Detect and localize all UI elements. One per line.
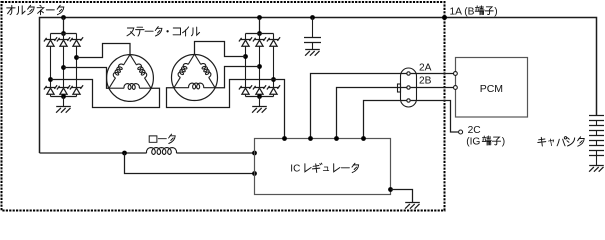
label: PCM xyxy=(480,83,503,95)
junction: rotor supply branch xyxy=(122,151,127,156)
node: terminal 1A (B terminal) xyxy=(442,15,447,20)
wire: left stator apex to bridge1 xyxy=(77,44,131,58)
alternator boundary box (dashed) xyxy=(2,2,445,211)
PCM pin (2A) xyxy=(454,72,458,76)
label: 2A xyxy=(419,62,432,73)
wire: regulator ground xyxy=(391,190,413,203)
junction: phase tap xyxy=(243,54,248,59)
svg-text:1A (B: 1A (B xyxy=(450,7,475,18)
wire: phase column x=50.5 xyxy=(50,46,52,87)
junction: phase tap xyxy=(74,55,79,60)
wire: phase column x=273.5 xyxy=(273,46,275,87)
junction: bridge ground node xyxy=(61,94,66,99)
wire: rotor to IC regulator F terminal xyxy=(176,152,254,154)
junction: bridge1 feed on B+ rail xyxy=(61,15,66,20)
junction: bridge2 feed on B+ rail xyxy=(257,15,262,20)
wire: branch to IC regulator B sense xyxy=(125,153,255,174)
wire: phase column x=259.5 xyxy=(259,46,261,87)
capacitor C1 (noise suppressor) xyxy=(304,18,321,50)
stator coil L1 phase winding (bottom leg) xyxy=(109,84,151,90)
diode D10 (lower, avalanche) xyxy=(239,85,252,96)
wire: left stator lower-left vertex to bridge1 xyxy=(64,68,110,89)
label: (IG端子) xyxy=(466,136,505,147)
wire: right stator lower-left vertex to bridge2 (routed below) xyxy=(167,80,274,108)
ground: capacitor C2 xyxy=(589,166,604,172)
junction: regulator pin 2A xyxy=(308,136,313,141)
junction: noise capacitor tap on B+ rail xyxy=(310,15,315,20)
wire: phase column x=76.5 xyxy=(76,46,78,87)
diode D5 (lower, avalanche) xyxy=(57,85,70,96)
wire: phase sense from bridge2 to regulator xyxy=(274,80,285,139)
IC regulator U1 (ICレギュレータ) xyxy=(255,139,391,195)
wire: 2B to PCM xyxy=(411,87,454,89)
wire: bridge bottom (anode) rail xyxy=(246,96,274,98)
label: 1A (B端子) xyxy=(450,6,498,18)
diode D6 (lower, avalanche) xyxy=(70,85,83,96)
svg-text:2A: 2A xyxy=(419,62,432,73)
node: terminal 2C (IG) xyxy=(459,130,463,134)
svg-text:): ) xyxy=(502,136,505,147)
wire: bridge bottom (anode) rail xyxy=(51,96,77,98)
ground: IC regulator xyxy=(405,203,420,209)
stator coil L2 phase winding (right leg) xyxy=(195,54,216,88)
capacitor C2 (EDLC stack) xyxy=(589,116,604,166)
wire: B+ to rotor field xyxy=(40,152,147,154)
connector J1 body xyxy=(398,68,417,107)
PCM module U2 xyxy=(456,58,528,118)
diode D4 (lower, avalanche) xyxy=(44,85,57,96)
junction: bridge ground node xyxy=(257,94,262,99)
junction: phase tap xyxy=(257,64,262,69)
junction: IC regulator pin (sense) xyxy=(252,171,257,176)
stator coil L2 phase winding (bottom leg) xyxy=(174,83,215,89)
label: 2B xyxy=(419,75,432,86)
diode D3 (upper, avalanche) xyxy=(70,34,83,47)
svg-text:2C: 2C xyxy=(468,125,481,136)
svg-text:2B: 2B xyxy=(419,75,432,86)
wire: phase column x=63.5 xyxy=(63,46,65,87)
wire: B+ rail from bridge to B terminal and capacitor xyxy=(40,18,597,154)
diode D7 (upper, avalanche) xyxy=(239,34,252,47)
diode D2 (upper, avalanche) xyxy=(57,34,70,47)
rotor field coil L3 xyxy=(147,148,177,155)
junction: regulator pin 2B xyxy=(334,136,339,141)
wire: phase column x=245.5 xyxy=(245,46,247,87)
diode D9 (upper, avalanche) xyxy=(267,34,280,47)
label: alternator (オルタネータ) xyxy=(7,5,64,14)
diode D8 (upper, avalanche) xyxy=(253,34,266,47)
label: rotor (ロータ) xyxy=(149,134,175,143)
connector pin 2A xyxy=(407,72,410,75)
connector pin 2C xyxy=(407,99,410,102)
stator coil L1: delta winding circle xyxy=(107,55,154,102)
wire: regulator to connector pin 2C xyxy=(364,101,407,139)
junction: regulator pin 2C xyxy=(361,136,366,141)
junction: IC regulator pin (rotor) xyxy=(252,151,257,156)
wire: right stator lower-right vertex to bridge2 xyxy=(215,67,260,88)
junction: phase tap xyxy=(271,77,276,82)
junction: bridge top rail feed xyxy=(257,31,262,36)
stator coil L2: delta winding circle xyxy=(172,55,218,101)
diode D1 (upper, avalanche) xyxy=(44,34,57,47)
wire: bridge top (cathode) rail xyxy=(51,33,77,35)
stator coil L1 phase winding (left leg) xyxy=(109,55,130,89)
wire: 2C to IG terminal xyxy=(411,101,459,133)
svg-text:): ) xyxy=(494,7,497,18)
wire: right stator apex to bridge2 xyxy=(195,42,246,57)
junction: phase tap xyxy=(48,77,53,82)
diode D12 (lower, avalanche) xyxy=(267,85,280,96)
label: stator coil (ステータ・コイル) xyxy=(127,27,200,36)
label: ICレギュレータ xyxy=(290,163,358,174)
junction: bridge top rail feed xyxy=(61,31,66,36)
ground: capacitor C1 xyxy=(305,50,320,56)
junction: regulator ground pin xyxy=(388,187,393,192)
wire: regulator to connector pin 2A xyxy=(311,74,407,139)
wire: left stator lower-right vertex to bridge1 (routed below) xyxy=(51,80,160,108)
svg-text:IC: IC xyxy=(290,163,300,174)
wire: bridge2 feed from B+ rail xyxy=(259,18,261,34)
wire: regulator to connector pin 2B xyxy=(337,88,407,139)
PCM pin (2B) xyxy=(454,86,458,90)
label: capacitor (キャパシタ) xyxy=(538,137,584,147)
wire: 2A to PCM xyxy=(411,73,454,75)
ground: bridge xyxy=(252,97,267,113)
label: 2C xyxy=(468,125,481,136)
junction: phase tap xyxy=(61,65,66,70)
connector pin 2B xyxy=(407,86,410,89)
ground: bridge xyxy=(56,97,71,113)
wire: bridge1 feed from B+ rail xyxy=(63,18,65,34)
svg-text:(IG: (IG xyxy=(466,136,480,147)
wire: bridge top (cathode) rail xyxy=(246,33,274,35)
stator coil L1 phase winding (right leg) xyxy=(130,55,151,89)
diode D11 (lower, avalanche) xyxy=(253,85,266,96)
svg-text:PCM: PCM xyxy=(480,83,503,95)
junction: regulator pin P xyxy=(282,136,287,141)
stator coil L2 phase winding (left leg) xyxy=(174,54,195,88)
